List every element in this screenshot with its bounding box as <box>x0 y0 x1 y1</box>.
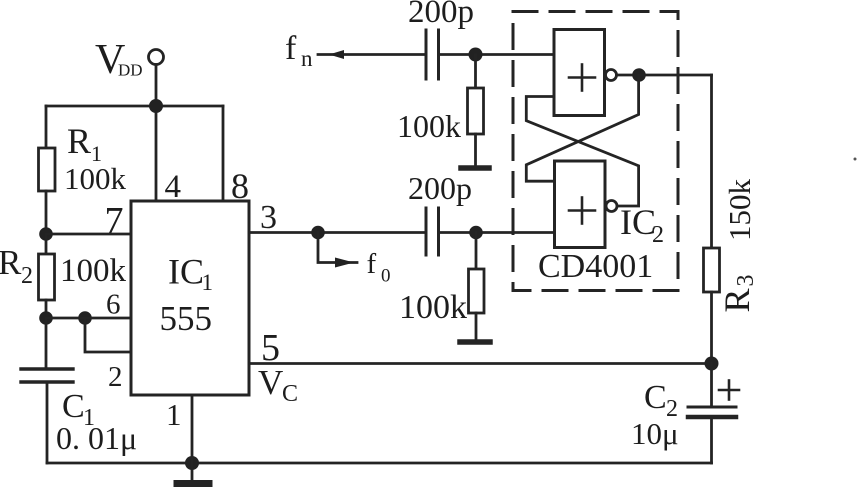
wire R1 top <box>45 106 48 148</box>
gate U1b plus symbol <box>569 198 595 224</box>
svg-text:R: R <box>0 243 22 282</box>
capacitor 200p lower <box>426 208 439 255</box>
op-amp/timer IC1 555 box <box>131 201 249 395</box>
gate U1a box <box>554 30 605 116</box>
resistor 100k upper <box>468 88 484 134</box>
svg-text:6: 6 <box>106 289 121 321</box>
wire VDD stem / pin4 vertical <box>155 65 158 202</box>
node junction VDD rail <box>149 99 163 113</box>
node junction f0 tap <box>311 226 325 240</box>
svg-text:555: 555 <box>160 299 213 338</box>
svg-text:4: 4 <box>165 169 182 205</box>
svg-text:100k: 100k <box>397 108 461 144</box>
label IC2 <box>620 202 664 248</box>
power terminal VDD <box>149 50 164 65</box>
ground main <box>177 463 209 484</box>
node junction lower RC <box>469 226 483 240</box>
arrow fn <box>329 50 344 59</box>
wire R3 top <box>710 75 713 248</box>
svg-text:f: f <box>367 248 377 280</box>
wire pin 3 output <box>249 231 425 234</box>
ground lower RC <box>460 339 490 345</box>
svg-text:IC: IC <box>620 202 656 242</box>
wire coupling to gate1 <box>439 53 555 56</box>
svg-text:100k: 100k <box>64 161 127 196</box>
label R3 (rotated) <box>717 275 759 313</box>
gate U1b output bubble <box>606 201 617 212</box>
wire 100k lower bottom <box>475 313 478 339</box>
wire 100k upper bottom <box>474 134 477 165</box>
wire f0 branch <box>318 233 357 263</box>
svg-text:R: R <box>67 121 91 161</box>
node junction gate1 output <box>632 68 646 82</box>
node junction upper RC <box>469 48 483 62</box>
speck artifact <box>854 158 857 161</box>
node junction pin7 <box>39 227 53 241</box>
label VC <box>258 363 298 407</box>
svg-text:2: 2 <box>652 222 664 248</box>
svg-text:1: 1 <box>202 270 214 295</box>
label fn <box>285 30 313 71</box>
label C1 <box>62 388 95 431</box>
capacitor C2 polarized <box>688 407 736 417</box>
wire C1 bottom <box>46 382 49 463</box>
svg-text:R: R <box>717 288 757 312</box>
capacitor 200p upper <box>426 30 439 79</box>
wire fn input <box>318 53 425 56</box>
wire pin 1 <box>191 395 194 463</box>
svg-text:IC: IC <box>168 252 204 292</box>
svg-text:CD4001: CD4001 <box>538 248 653 285</box>
svg-text:7: 7 <box>105 200 124 242</box>
svg-text:8: 8 <box>231 166 249 206</box>
wire 100k upper top <box>474 55 477 89</box>
svg-text:100k: 100k <box>399 289 467 326</box>
node junction pin6 mid <box>78 311 92 325</box>
wire C2 top <box>710 364 713 408</box>
resistor R3 <box>704 248 720 292</box>
wire R1 bottom <box>45 191 48 235</box>
wire gate1 out to R3 <box>639 74 712 77</box>
label VDD <box>95 37 143 83</box>
wire top rail <box>46 105 223 108</box>
wire R2 bottom <box>45 300 48 319</box>
wire bottom rail <box>47 462 712 465</box>
resistor R1 <box>39 148 56 191</box>
label R1 <box>67 121 102 166</box>
svg-text:200p: 200p <box>408 170 472 206</box>
gate U1b box <box>555 161 606 248</box>
dashed box CD4001 <box>513 12 678 291</box>
wire pin 5 VC line <box>249 362 712 365</box>
label C2 <box>644 379 678 422</box>
wire C2 bottom <box>710 417 713 463</box>
wire C1 top <box>45 318 48 369</box>
svg-text:2: 2 <box>108 361 123 393</box>
wire R2 top <box>45 234 48 254</box>
wire cross-couple gate2out to gate1 input <box>526 97 638 207</box>
wire pin8 branch <box>222 106 225 201</box>
svg-text:2: 2 <box>21 263 33 289</box>
wire cross-couple gate1out to gate2 input <box>526 75 638 181</box>
node junction pin6 left <box>39 311 53 325</box>
capacitor C1 <box>21 369 73 382</box>
wire 100k lower top <box>475 233 478 270</box>
node junction VC / C2 <box>705 357 719 371</box>
gate U1a output bubble <box>606 70 617 81</box>
svg-text:3: 3 <box>260 199 277 236</box>
svg-text:150k: 150k <box>722 179 757 242</box>
wire gate1 output <box>617 74 634 77</box>
svg-text:V: V <box>258 363 283 402</box>
svg-text:10μ: 10μ <box>631 416 679 451</box>
wire pin 7 <box>46 233 131 236</box>
svg-text:C: C <box>282 381 298 407</box>
label f0 <box>367 248 391 287</box>
wire coupling to gate2 <box>439 231 555 234</box>
node junction ground <box>185 456 199 470</box>
svg-text:0. 01μ: 0. 01μ <box>56 420 137 456</box>
label R2 <box>0 243 33 289</box>
svg-text:1: 1 <box>166 397 182 432</box>
arrow f0 <box>335 258 354 268</box>
C2 plus polarity mark <box>719 381 739 400</box>
ground upper RC <box>461 165 489 171</box>
resistor R2 <box>39 254 55 300</box>
svg-text:f: f <box>285 30 297 67</box>
gate U1a plus symbol <box>569 65 595 91</box>
resistor 100k lower <box>469 269 485 313</box>
svg-text:C: C <box>644 379 667 416</box>
svg-text:0: 0 <box>381 266 391 287</box>
label IC1 <box>160 252 214 339</box>
wire pin 2 hook <box>85 318 131 352</box>
wire R3 bottom <box>710 292 713 364</box>
svg-text:n: n <box>301 46 313 71</box>
svg-text:200p: 200p <box>408 0 474 30</box>
wire pin 6 <box>46 317 131 320</box>
svg-text:100k: 100k <box>60 253 127 289</box>
svg-text:3: 3 <box>733 275 759 287</box>
svg-text:DD: DD <box>118 61 143 80</box>
